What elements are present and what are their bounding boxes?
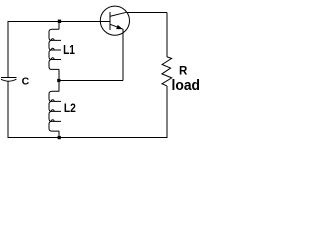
wire: emitter tap horizontal (to L1/L2 junction) (59, 80, 123, 82)
transistor Q1 emitter arrow (116, 25, 123, 29)
wire: emitter vertical (122, 29, 124, 81)
inductor L2 coil (49, 91, 61, 131)
capacitor C top plate (1, 76, 17, 78)
wire: right vertical lower (bottom wire up to resistor) (166, 86, 168, 138)
transistor Q1 emitter lead (110, 24, 123, 29)
transistor Q1 collector lead (110, 12, 127, 16)
inductor L1 coil (49, 29, 61, 69)
capacitor C curved plate (1, 79, 16, 81)
svg-text:L2: L2 (64, 101, 76, 115)
inductor L2 bottom stub (58, 131, 60, 137)
svg-text:load: load (172, 77, 201, 94)
wire: bottom horizontal (8, 137, 168, 139)
transistor Q1 base bar (109, 12, 111, 30)
inductor L1 bottom stub (58, 69, 60, 80)
inductor L1 top stub (58, 22, 60, 30)
inductor L2 top stub (58, 81, 60, 92)
wire: top horizontal (base net, left wire to transistor base) (8, 21, 111, 23)
wire: left vertical upper (top wire down to capacitor) (7, 22, 9, 78)
svg-text:C: C (22, 76, 30, 88)
resistor R load zigzag (162, 57, 172, 86)
wire: left vertical lower (capacitor to bottom wire) (7, 81, 9, 137)
wire: right vertical upper (collector wire down to resistor) (166, 12, 168, 57)
node: junction dot middle (emitter tap between L1 and L2) (57, 79, 60, 82)
node: junction dot top (base / L1 top) (58, 20, 61, 23)
node: junction dot bottom (L2 / bottom wire) (58, 136, 61, 139)
wire: collector horizontal (126, 11, 167, 13)
transistor Q1 circle (100, 6, 129, 35)
svg-text:L1: L1 (63, 43, 75, 57)
